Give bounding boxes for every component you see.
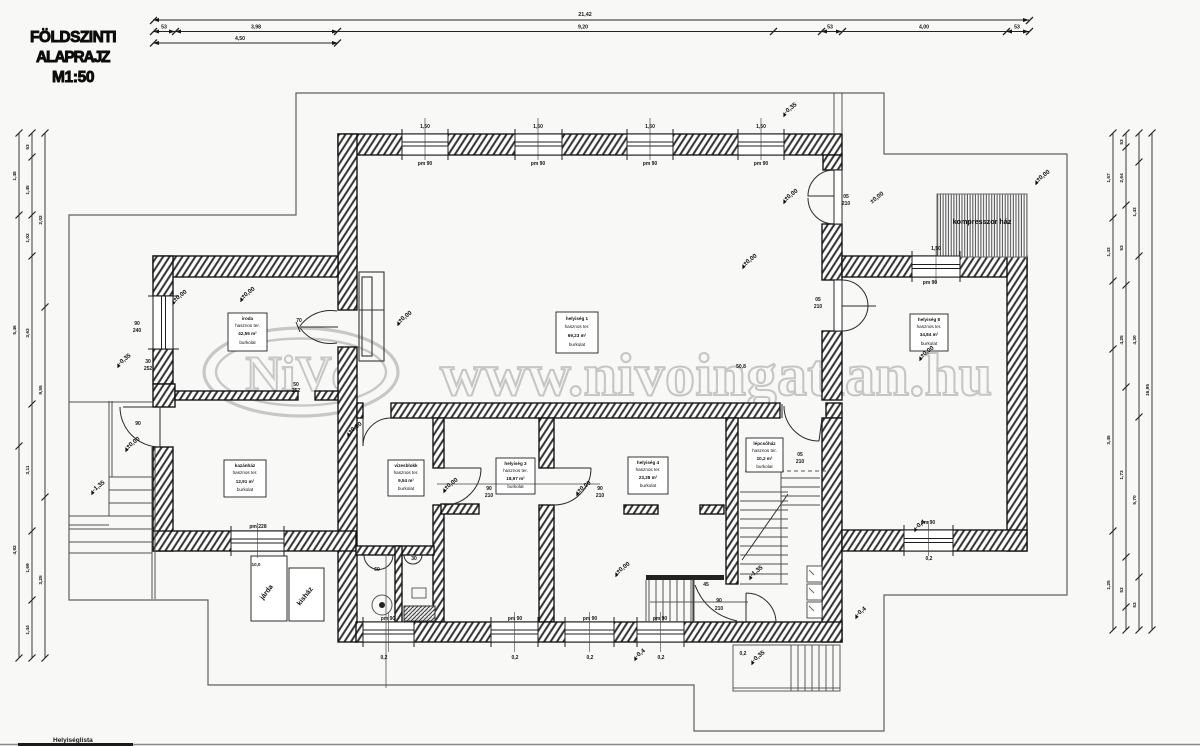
wall: room4/stair divider upper bbox=[726, 418, 738, 584]
wall: partition iroda/szoba left part bbox=[175, 391, 298, 400]
wall: hall right seg2 bbox=[822, 331, 842, 400]
svg-text:helyiség 4: helyiség 4 bbox=[637, 460, 660, 465]
window bottom 4 bbox=[637, 617, 684, 647]
wall: middle wall seg c bbox=[826, 403, 842, 418]
svg-text:2,02: 2,02 bbox=[38, 215, 44, 225]
wc sink circle bbox=[372, 595, 392, 615]
wall: middle wall seg a bbox=[357, 403, 363, 418]
svg-text:±0,00: ±0,00 bbox=[397, 309, 414, 324]
svg-text:burkolat: burkolat bbox=[569, 342, 586, 347]
doors bbox=[120, 170, 876, 623]
label room3 bbox=[496, 458, 535, 494]
window bottom 2 bbox=[491, 617, 538, 647]
exterior stair bottom landing bbox=[733, 645, 840, 691]
door room4-stairwell bbox=[650, 580, 748, 622]
window bottom 1 bbox=[363, 617, 414, 647]
exterior steps top-right bbox=[834, 93, 842, 134]
svg-text:pm 90: pm 90 bbox=[381, 616, 396, 622]
svg-text:0,2: 0,2 bbox=[381, 655, 388, 661]
svg-text:-0,35: -0,35 bbox=[117, 352, 133, 367]
svg-text:53: 53 bbox=[1132, 602, 1138, 608]
svg-text:3,63: 3,63 bbox=[25, 328, 31, 338]
svg-text:30: 30 bbox=[145, 359, 151, 365]
section band room4 bbox=[646, 575, 724, 580]
svg-text:-1,35: -1,35 bbox=[91, 479, 107, 494]
watermark logo ellipse bbox=[204, 328, 398, 416]
svg-text:42,55 m²: 42,55 m² bbox=[238, 331, 257, 336]
window iroda left bbox=[148, 296, 179, 349]
wall: vizesblokk/room3 divider upper bbox=[433, 418, 444, 468]
wall: room3/room4 divider upper bbox=[539, 418, 554, 468]
stair dashed cut line bbox=[745, 470, 830, 472]
svg-text:10,0: 10,0 bbox=[252, 562, 261, 567]
svg-text:05: 05 bbox=[797, 452, 803, 458]
svg-text:1,02: 1,02 bbox=[25, 233, 31, 243]
label szoba bbox=[224, 460, 266, 497]
label iroda bbox=[228, 313, 267, 351]
svg-text:burkolat: burkolat bbox=[507, 484, 524, 489]
svg-text:45: 45 bbox=[703, 582, 709, 588]
svg-text:hasznos ter.: hasznos ter. bbox=[235, 323, 260, 328]
small dim texts near windows/doors bbox=[133, 118, 941, 661]
svg-text:kazánház: kazánház bbox=[235, 463, 256, 468]
door hall-stairwell bbox=[782, 404, 822, 441]
wall: room3/room4 divider lower bbox=[539, 505, 554, 622]
chimney block in hall bbox=[359, 272, 384, 361]
svg-text:±0,00: ±0,00 bbox=[742, 252, 759, 267]
right dimension chain bbox=[1106, 130, 1156, 634]
wall stub c bbox=[700, 505, 724, 514]
svg-text:1,45: 1,45 bbox=[25, 185, 31, 195]
top dimension chain line 3 bbox=[150, 36, 341, 47]
svg-text:-0,35: -0,35 bbox=[783, 101, 799, 116]
wall: szoba bottom bbox=[153, 531, 356, 551]
exterior stair left bbox=[69, 401, 155, 599]
svg-text:burkolat: burkolat bbox=[237, 487, 254, 492]
svg-text:50,8: 50,8 bbox=[736, 364, 746, 370]
svg-text:53: 53 bbox=[1014, 25, 1020, 31]
wall: iroda top bbox=[153, 256, 338, 277]
svg-text:1,73: 1,73 bbox=[1119, 470, 1125, 480]
svg-text:210: 210 bbox=[596, 493, 605, 499]
window right wing bottom bbox=[904, 525, 953, 556]
label room4 bbox=[628, 457, 668, 494]
svg-text:www.nivoingatlan.hu: www.nivoingatlan.hu bbox=[440, 342, 992, 408]
svg-text:±0,00: ±0,00 bbox=[783, 187, 800, 202]
label vizesblokk bbox=[388, 460, 424, 496]
svg-text:70: 70 bbox=[296, 318, 302, 324]
svg-text:90: 90 bbox=[597, 486, 603, 492]
svg-text:3,98: 3,98 bbox=[251, 25, 261, 31]
wall: partition iroda/szoba right part bbox=[315, 391, 338, 400]
window bottom 3 bbox=[565, 617, 614, 647]
svg-text:18,97 m²: 18,97 m² bbox=[506, 476, 525, 481]
svg-text:05: 05 bbox=[815, 297, 821, 303]
outer site boundary bbox=[69, 93, 1067, 731]
svg-text:3,11: 3,11 bbox=[25, 465, 31, 474]
label right wing bbox=[910, 314, 948, 351]
wall: left outer mid segment bbox=[153, 349, 173, 384]
svg-text:5,70: 5,70 bbox=[1132, 495, 1138, 505]
svg-text:burkolat: burkolat bbox=[640, 483, 657, 488]
svg-text:53: 53 bbox=[827, 25, 833, 31]
window top 3 bbox=[627, 129, 673, 160]
door entry left bbox=[120, 407, 160, 447]
svg-text:210: 210 bbox=[485, 493, 494, 499]
svg-text:34,84 m²: 34,84 m² bbox=[920, 332, 939, 337]
door room3 bbox=[444, 468, 481, 505]
svg-text:9,20: 9,20 bbox=[578, 25, 588, 31]
wall: hall top bbox=[338, 134, 842, 155]
svg-text:vizesblokk: vizesblokk bbox=[394, 463, 418, 468]
svg-text:1,48: 1,48 bbox=[12, 171, 18, 181]
svg-text:0,2: 0,2 bbox=[926, 556, 933, 562]
svg-text:helyiség 3: helyiség 3 bbox=[504, 461, 527, 466]
door hall-vizesblokk bbox=[363, 418, 391, 446]
svg-text:M1:50: M1:50 bbox=[52, 69, 94, 86]
svg-text:1,43: 1,43 bbox=[1132, 207, 1138, 217]
interior stair flight bbox=[740, 472, 820, 584]
svg-text:0,2: 0,2 bbox=[512, 655, 519, 661]
svg-text:252: 252 bbox=[292, 388, 301, 394]
wall: left pillar bbox=[153, 384, 175, 407]
wall: vizesblokk/room3 divider lower bbox=[433, 505, 444, 622]
svg-text:1,69: 1,69 bbox=[25, 563, 31, 573]
svg-text:±0,00: ±0,00 bbox=[869, 190, 886, 205]
svg-text:±0,00: ±0,00 bbox=[576, 479, 593, 494]
wall: right wing bottom bbox=[842, 530, 1027, 551]
door stair exit bbox=[746, 593, 776, 623]
svg-text:Helyiséglista: Helyiséglista bbox=[53, 737, 93, 744]
svg-text:-0,35: -0,35 bbox=[751, 649, 767, 664]
wall: main left (upper) bbox=[338, 134, 357, 310]
svg-text:53: 53 bbox=[1119, 245, 1125, 251]
svg-text:210: 210 bbox=[796, 459, 805, 465]
svg-text:05: 05 bbox=[843, 194, 849, 200]
svg-text:4,92: 4,92 bbox=[12, 545, 18, 555]
window top 2 bbox=[515, 129, 562, 160]
svg-text:90: 90 bbox=[135, 421, 141, 427]
svg-text:12,91 m²: 12,91 m² bbox=[236, 479, 255, 484]
svg-text:ALAPRAJZ: ALAPRAJZ bbox=[36, 49, 111, 66]
shower dark block bbox=[404, 606, 435, 621]
svg-text:53: 53 bbox=[25, 144, 31, 150]
svg-text:FÖLDSZINTI: FÖLDSZINTI bbox=[30, 29, 116, 46]
svg-text:252: 252 bbox=[144, 366, 153, 372]
wall: left outer upper segment bbox=[153, 256, 173, 296]
svg-text:30: 30 bbox=[411, 556, 417, 562]
svg-text:240: 240 bbox=[133, 328, 142, 334]
svg-text:10,2 m²: 10,2 m² bbox=[757, 456, 773, 461]
small cellar stair bbox=[385, 556, 387, 688]
svg-text:23,38 m²: 23,38 m² bbox=[639, 475, 658, 480]
svg-text:9,54 m²: 9,54 m² bbox=[398, 478, 414, 483]
window right wing top bbox=[912, 251, 960, 282]
svg-text:burkolat: burkolat bbox=[398, 486, 415, 491]
svg-text:pm 90: pm 90 bbox=[418, 161, 433, 167]
door wc1 bbox=[364, 555, 393, 570]
svg-text:burkolat: burkolat bbox=[239, 340, 256, 345]
svg-text:69,23 m²: 69,23 m² bbox=[568, 333, 587, 338]
svg-text:burkolat: burkolat bbox=[756, 464, 773, 469]
svg-text:hasznos ter.: hasznos ter. bbox=[394, 470, 419, 475]
svg-text:hasznos ter.: hasznos ter. bbox=[233, 470, 258, 475]
svg-text:hasznos ter.: hasznos ter. bbox=[503, 468, 528, 473]
svg-text:210: 210 bbox=[715, 606, 724, 612]
svg-text:16,95: 16,95 bbox=[1145, 384, 1151, 396]
svg-text:90: 90 bbox=[486, 486, 492, 492]
kompresszor haz bbox=[937, 194, 1027, 257]
svg-text:53: 53 bbox=[1119, 587, 1125, 593]
svg-text:hasznos ter.: hasznos ter. bbox=[752, 448, 777, 453]
door hall-right wing lower (double) bbox=[834, 280, 876, 331]
window szoba bottom bbox=[231, 526, 284, 556]
svg-text:0,2: 0,2 bbox=[587, 655, 594, 661]
top dimension chain line 1 bbox=[150, 12, 1033, 24]
svg-text:60: 60 bbox=[374, 567, 380, 573]
svg-text:0,2: 0,2 bbox=[740, 651, 747, 657]
svg-text:pm 90: pm 90 bbox=[643, 161, 658, 167]
wall: right wing top bbox=[842, 256, 1027, 277]
svg-text:hasznos ter.: hasznos ter. bbox=[565, 324, 590, 329]
svg-text:pm 90: pm 90 bbox=[653, 616, 668, 622]
toilet bbox=[412, 588, 426, 598]
door wc2 bbox=[404, 555, 422, 564]
wall: stair right / hall right lower bbox=[822, 418, 842, 642]
wall: hall top-right corner step bbox=[823, 155, 842, 170]
windows bbox=[148, 129, 960, 647]
svg-text:9,55: 9,55 bbox=[38, 385, 44, 395]
svg-text:3,25: 3,25 bbox=[38, 575, 44, 585]
svg-text:53: 53 bbox=[1119, 139, 1125, 145]
left dimension chain bbox=[12, 130, 49, 662]
top dimension chain line 2 bbox=[150, 25, 1033, 36]
svg-text:±0,00: ±0,00 bbox=[1035, 168, 1052, 183]
room labels bbox=[224, 312, 948, 497]
svg-text:-1,35: -1,35 bbox=[749, 564, 765, 579]
svg-text:2,64: 2,64 bbox=[1119, 173, 1125, 183]
svg-text:5,46: 5,46 bbox=[12, 325, 18, 335]
svg-text:pm 90: pm 90 bbox=[531, 161, 546, 167]
door iroda (double swing) bbox=[296, 310, 338, 343]
svg-text:3,45: 3,45 bbox=[1106, 435, 1112, 445]
wall: hall right seg1 bbox=[822, 224, 842, 280]
svg-text:helyiség 8: helyiség 8 bbox=[918, 317, 941, 322]
wall: middle wall seg b bbox=[391, 403, 780, 418]
wall: right wing right bbox=[1007, 256, 1027, 551]
svg-text:4,25: 4,25 bbox=[1119, 335, 1125, 345]
svg-text:53: 53 bbox=[161, 25, 167, 31]
svg-text:lépcsőház: lépcsőház bbox=[753, 441, 776, 446]
wall: bottom main bbox=[356, 622, 842, 642]
svg-text:pm 228: pm 228 bbox=[249, 524, 266, 530]
svg-text:hasznos ter.: hasznos ter. bbox=[917, 324, 942, 329]
svg-text:pm 90: pm 90 bbox=[583, 616, 598, 622]
title block bbox=[30, 29, 116, 86]
fixtures bbox=[251, 93, 842, 622]
door hall-right wing upper (double) bbox=[808, 170, 842, 224]
svg-text:±0,00: ±0,00 bbox=[125, 435, 142, 450]
svg-text:helyiség 1: helyiség 1 bbox=[566, 316, 589, 321]
svg-text:iroda: iroda bbox=[242, 316, 254, 321]
footer table: Helyiséglista bbox=[0, 737, 1200, 746]
diagonal level marks bbox=[88, 101, 1052, 666]
wall: main left (lower) bbox=[338, 347, 357, 642]
svg-text:pm 90: pm 90 bbox=[923, 280, 938, 286]
svg-text:hasznos ter.: hasznos ter. bbox=[636, 467, 661, 472]
wall: left outer lower segment bbox=[153, 447, 173, 551]
window top 4 bbox=[738, 129, 784, 160]
window top 1 bbox=[402, 129, 448, 160]
svg-text:21,42: 21,42 bbox=[578, 12, 592, 18]
label stairwell bbox=[746, 438, 783, 472]
svg-text:0,2: 0,2 bbox=[658, 655, 665, 661]
svg-text:pm 90: pm 90 bbox=[754, 161, 769, 167]
radiator boxes stairwell bbox=[807, 566, 822, 618]
svg-text:±0,00: ±0,00 bbox=[172, 288, 189, 303]
svg-text:±0,00: ±0,00 bbox=[615, 560, 632, 575]
svg-text:90: 90 bbox=[716, 598, 722, 604]
wall: vizesblokk inner band bbox=[356, 546, 434, 555]
svg-text:210: 210 bbox=[842, 201, 851, 207]
wall: wc divider bbox=[395, 546, 402, 622]
svg-text:1,44: 1,44 bbox=[25, 625, 31, 635]
svg-text:90: 90 bbox=[134, 321, 140, 327]
wall stub b bbox=[624, 505, 658, 514]
door room4 bbox=[554, 468, 591, 505]
svg-text:pm 90: pm 90 bbox=[508, 616, 523, 622]
svg-text:1,43: 1,43 bbox=[1106, 247, 1112, 257]
svg-text:4,00: 4,00 bbox=[919, 25, 929, 31]
svg-text:±0,00: ±0,00 bbox=[240, 285, 257, 300]
svg-text:1,57: 1,57 bbox=[1106, 173, 1112, 183]
svg-text:4,30: 4,30 bbox=[1132, 335, 1138, 345]
label hall bbox=[556, 312, 598, 353]
wall stub a bbox=[441, 504, 479, 514]
terrace boxes outside bottom-left bbox=[251, 556, 324, 621]
svg-text:kompresszor ház: kompresszor ház bbox=[953, 217, 1012, 226]
svg-text:210: 210 bbox=[814, 304, 823, 310]
svg-text:4,50: 4,50 bbox=[235, 36, 245, 42]
svg-text:1,25: 1,25 bbox=[1106, 580, 1112, 590]
stairs bbox=[69, 401, 840, 691]
